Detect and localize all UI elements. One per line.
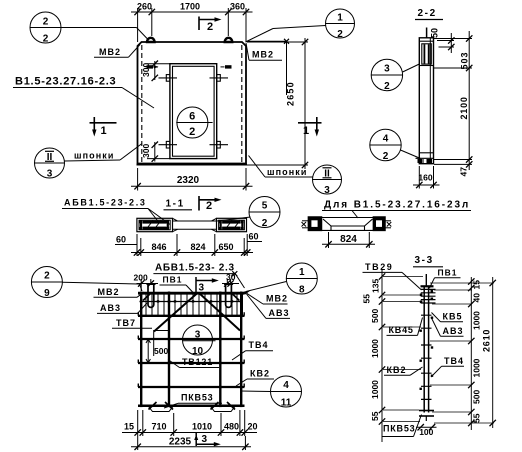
svg-text:ТВ121: ТВ121 bbox=[182, 357, 213, 367]
mid bar 1 bbox=[138, 338, 245, 340]
svg-text:503: 503 bbox=[460, 51, 470, 69]
key (shponka) top-left bbox=[159, 75, 178, 82]
top hook comb bbox=[420, 289, 436, 303]
dashed edge line right bbox=[241, 45, 243, 163]
top anchor detail bbox=[419, 41, 433, 65]
diagonal bar right bbox=[199, 293, 240, 331]
section mark 2 bottom bbox=[199, 196, 222, 212]
svg-text:ПВ1: ПВ1 bbox=[438, 268, 458, 278]
door opening bbox=[170, 64, 217, 159]
diagonal bar left bbox=[154, 293, 198, 332]
label TV4 (sec33) bbox=[431, 356, 464, 377]
callout 6/2 bbox=[176, 107, 212, 138]
svg-text:ТВ7: ТВ7 bbox=[116, 318, 136, 328]
corner diagonal top-right bbox=[231, 293, 239, 301]
svg-text:3: 3 bbox=[202, 434, 208, 445]
svg-text:300: 300 bbox=[141, 63, 151, 77]
svg-text:ПВ1: ПВ1 bbox=[163, 274, 183, 284]
top chord bbox=[138, 292, 245, 295]
panel outline bbox=[137, 42, 248, 165]
svg-text:1000: 1000 bbox=[472, 358, 482, 377]
right bar section bbox=[217, 218, 247, 231]
lifting loop left bbox=[147, 38, 155, 42]
svg-text:20: 20 bbox=[247, 422, 257, 432]
svg-text:135: 135 bbox=[371, 279, 381, 293]
svg-text:2: 2 bbox=[43, 17, 49, 28]
key bottom-right bbox=[210, 141, 229, 148]
svg-text:АБВ1.5-23-2.3: АБВ1.5-23-2.3 bbox=[64, 198, 147, 208]
dim 503 / 2100 / 47 right chain bbox=[434, 31, 472, 177]
dim 300 upper bbox=[141, 61, 170, 82]
top dimension line 260/1700/360 bbox=[131, 2, 253, 43]
svg-text:200: 200 bbox=[134, 273, 148, 283]
svg-text:шпонки: шпонки bbox=[74, 151, 115, 161]
svg-text:МВ2: МВ2 bbox=[266, 293, 288, 303]
dim 100 (sec33 bottom) bbox=[416, 424, 437, 437]
svg-text:1: 1 bbox=[299, 267, 305, 278]
label 3-3 bbox=[413, 255, 443, 267]
vertical edge bar left bbox=[140, 292, 142, 408]
section 2-2 body bbox=[419, 38, 433, 164]
extension lines across bbox=[383, 277, 494, 424]
svg-text:8: 8 bbox=[299, 285, 305, 296]
label TV121 bbox=[168, 357, 219, 368]
vertical jamb bar left bbox=[168, 292, 170, 408]
label 1-1 bbox=[164, 199, 193, 210]
svg-text:846: 846 bbox=[151, 242, 166, 252]
label MV2 cage-left bbox=[94, 287, 145, 298]
stirrup ticks bbox=[420, 315, 434, 399]
vertical edge bar right bbox=[240, 292, 242, 408]
right block bbox=[373, 217, 391, 231]
svg-text:3: 3 bbox=[324, 185, 330, 196]
label TV29 bbox=[363, 262, 422, 290]
label ABV1.5-23-2.3 upper bbox=[62, 198, 170, 225]
vertical jamb bar right bbox=[219, 292, 221, 408]
svg-text:260: 260 bbox=[137, 2, 152, 12]
mid bar 2 bbox=[138, 362, 245, 364]
svg-text:40: 40 bbox=[472, 293, 482, 303]
label MV2 top-right bbox=[246, 39, 289, 95]
svg-text:МВ2: МВ2 bbox=[98, 287, 120, 297]
corner diagonal top-left bbox=[143, 293, 152, 301]
svg-text:4: 4 bbox=[283, 380, 289, 391]
lifting loop right bbox=[225, 38, 233, 42]
label KV2 (sec33) bbox=[384, 365, 423, 376]
svg-text:1010: 1010 bbox=[192, 422, 212, 432]
label 2-2 bbox=[415, 8, 443, 20]
svg-text:КВ45: КВ45 bbox=[389, 325, 414, 335]
svg-text:ПКВ53: ПКВ53 bbox=[383, 424, 415, 434]
svg-text:АВ3: АВ3 bbox=[443, 326, 464, 336]
svg-text:МВ2: МВ2 bbox=[252, 50, 274, 60]
svg-text:160: 160 bbox=[418, 173, 432, 183]
arrowhead to cage corner bbox=[244, 290, 252, 295]
svg-text:2: 2 bbox=[44, 271, 50, 282]
svg-text:2235: 2235 bbox=[169, 437, 192, 448]
svg-text:3: 3 bbox=[384, 64, 390, 75]
svg-text:300: 300 bbox=[141, 144, 151, 158]
svg-text:55: 55 bbox=[472, 413, 482, 423]
callout II/3 shponki left bbox=[35, 144, 143, 180]
label KV45 bbox=[387, 318, 423, 336]
bottom hooks right bbox=[211, 402, 236, 410]
bottom plate bbox=[419, 411, 434, 422]
svg-text:710: 710 bbox=[151, 422, 166, 432]
svg-text:2610: 2610 bbox=[482, 329, 492, 352]
svg-text:2: 2 bbox=[262, 218, 268, 229]
svg-text:1000: 1000 bbox=[472, 311, 482, 330]
callout 4/11 bbox=[241, 376, 302, 409]
svg-text:10: 10 bbox=[192, 346, 204, 357]
section mark 1 right bbox=[298, 117, 322, 137]
chord line 2 bbox=[140, 301, 244, 303]
top plate bbox=[421, 285, 434, 287]
svg-text:9: 9 bbox=[44, 288, 50, 299]
bar column bbox=[424, 286, 428, 413]
svg-text:6: 6 bbox=[189, 111, 195, 123]
svg-text:60: 60 bbox=[116, 235, 126, 245]
callout 1/8 bbox=[246, 263, 317, 296]
dim 2650 right bbox=[247, 38, 308, 169]
svg-text:50: 50 bbox=[430, 28, 440, 38]
top stirrups bbox=[146, 293, 243, 317]
label AV3 cage-right bbox=[247, 294, 291, 318]
svg-text:15: 15 bbox=[124, 422, 134, 432]
svg-text:500: 500 bbox=[472, 390, 482, 404]
middle sill strip bbox=[173, 218, 217, 231]
dim 50 bbox=[430, 28, 455, 53]
callout 2/2 bbox=[30, 12, 149, 45]
label V1.5-23.27.16-2.3 bbox=[13, 76, 154, 109]
svg-text:55: 55 bbox=[370, 411, 380, 421]
left dim chain bbox=[362, 270, 386, 442]
lifting loop left (cage) bbox=[147, 285, 156, 308]
callout 3/2 bbox=[371, 59, 419, 92]
mid bar 3 bbox=[138, 386, 245, 388]
bottom chord bbox=[138, 405, 245, 408]
dim 200 top bbox=[134, 273, 159, 292]
label AV3 cage-left bbox=[97, 303, 147, 314]
dim 824 bbox=[322, 232, 375, 248]
svg-text:ТВ4: ТВ4 bbox=[444, 356, 464, 366]
intersection dots bbox=[140, 300, 243, 407]
svg-text:2: 2 bbox=[43, 34, 49, 45]
loop anchor mark right bbox=[221, 65, 232, 68]
label PKV53 (sec33) bbox=[382, 415, 422, 437]
stirrup dots on top chord bbox=[151, 292, 238, 294]
label KV2 cage-right bbox=[236, 368, 274, 386]
svg-text:1000: 1000 bbox=[370, 339, 380, 358]
svg-text:ТВ4: ТВ4 bbox=[249, 340, 269, 350]
bottom dims 15/710/1010/480/20 bbox=[122, 410, 258, 450]
svg-text:2: 2 bbox=[206, 200, 212, 212]
svg-text:В1.5-23.27.16-2.3: В1.5-23.27.16-2.3 bbox=[15, 76, 116, 88]
svg-text:АВ3: АВ3 bbox=[269, 308, 290, 318]
inner vertical detail left column bbox=[154, 330, 169, 356]
svg-text:824: 824 bbox=[190, 242, 205, 252]
dim 2320 bottom bbox=[131, 168, 253, 191]
svg-text:360: 360 bbox=[230, 2, 245, 12]
label KV5 bbox=[432, 311, 464, 322]
svg-text:МВ2: МВ2 bbox=[99, 47, 121, 57]
svg-text:КВ2: КВ2 bbox=[387, 365, 407, 375]
svg-text:500: 500 bbox=[370, 309, 380, 323]
key bottom-left bbox=[159, 141, 178, 148]
dashed edge line left bbox=[141, 45, 143, 163]
label Dlya V1.5-23.27.16-23l bbox=[322, 200, 471, 219]
top stud bbox=[425, 274, 427, 286]
callout 2/9 bbox=[31, 267, 142, 300]
right dim chain inner bbox=[468, 277, 481, 430]
svg-text:2100: 2100 bbox=[459, 96, 469, 119]
svg-text:3-3: 3-3 bbox=[415, 255, 434, 266]
svg-text:2: 2 bbox=[189, 126, 195, 138]
label TV4 cage-right bbox=[232, 340, 273, 360]
svg-text:55: 55 bbox=[362, 294, 372, 304]
label AV3 (sec33) bbox=[431, 317, 464, 336]
svg-text:АВ3: АВ3 bbox=[100, 303, 121, 313]
label PV1 (sec33) bbox=[430, 268, 461, 288]
callout 1/2 bbox=[246, 9, 355, 42]
callout 3/10 bbox=[183, 325, 216, 357]
loop anchor mark left bbox=[147, 65, 159, 68]
svg-text:Для В1.5-23.27.16-23л: Для В1.5-23.27.16-23л bbox=[324, 200, 470, 211]
svg-text:60: 60 bbox=[248, 232, 258, 242]
svg-text:2320: 2320 bbox=[177, 175, 200, 186]
svg-text:15: 15 bbox=[472, 280, 482, 290]
dim line 60/846/824/650/60 bbox=[115, 232, 262, 257]
svg-text:4: 4 bbox=[383, 134, 389, 145]
label TV7 cage-left bbox=[112, 318, 152, 329]
section mark 2 top bbox=[199, 17, 222, 34]
svg-text:650: 650 bbox=[218, 242, 233, 252]
bottom anchor detail bbox=[416, 153, 434, 164]
svg-text:2-2: 2-2 bbox=[418, 8, 437, 19]
svg-text:1-1: 1-1 bbox=[166, 199, 185, 210]
svg-text:824: 824 bbox=[340, 234, 357, 245]
section mark 3 bottom bbox=[194, 433, 221, 446]
sill trapezoid left bbox=[148, 406, 174, 412]
svg-text:2: 2 bbox=[384, 81, 390, 92]
key top-right bbox=[210, 75, 229, 82]
svg-text:500: 500 bbox=[154, 346, 168, 356]
svg-text:480: 480 bbox=[224, 422, 239, 432]
svg-text:2: 2 bbox=[383, 151, 389, 162]
dim 300 lower bbox=[141, 142, 170, 162]
label ABV1.5-23-2.3 lower bbox=[153, 263, 244, 289]
svg-text:ПКВ53: ПКВ53 bbox=[181, 393, 213, 403]
label PKV53 bbox=[164, 393, 222, 409]
dim 2235 bbox=[131, 436, 251, 450]
svg-text:1: 1 bbox=[101, 125, 107, 137]
svg-text:ТВ29: ТВ29 bbox=[365, 262, 393, 272]
svg-text:шпонки: шпонки bbox=[267, 167, 308, 177]
bottom hooks left bbox=[149, 402, 174, 410]
lintel bottom bar bbox=[138, 315, 245, 317]
svg-text:11: 11 bbox=[281, 398, 292, 409]
callout 5/2 bbox=[217, 197, 280, 230]
svg-text:АБВ1.5-23- 2.3: АБВ1.5-23- 2.3 bbox=[155, 263, 235, 274]
svg-text:КВ5: КВ5 bbox=[443, 311, 463, 321]
svg-text:1700: 1700 bbox=[180, 2, 200, 12]
label MV2 top-left bbox=[94, 45, 140, 58]
svg-text:2: 2 bbox=[337, 29, 343, 40]
svg-text:47: 47 bbox=[459, 167, 469, 177]
section mark 1 left bbox=[90, 117, 117, 137]
callout 4/2 bbox=[370, 129, 421, 162]
left bar section bbox=[137, 218, 173, 231]
svg-text:1: 1 bbox=[303, 125, 309, 137]
middle sill profile bbox=[322, 218, 374, 231]
dim 500 vertical bbox=[146, 339, 168, 363]
dim 30 top right bbox=[222, 272, 239, 287]
label PV1 (cage top) bbox=[160, 274, 194, 293]
label MV2 cage-right bbox=[246, 293, 289, 305]
right dim chain outer 2610 bbox=[482, 277, 496, 428]
dim 160 bottom bbox=[413, 166, 440, 189]
bar end hooks bbox=[138, 312, 244, 387]
svg-text:3: 3 bbox=[47, 169, 53, 180]
callout II/3 shponki right bbox=[249, 156, 342, 197]
svg-text:2: 2 bbox=[207, 21, 213, 33]
top pin bbox=[426, 28, 428, 38]
sill trapezoid right bbox=[210, 406, 236, 412]
svg-text:1: 1 bbox=[337, 13, 343, 24]
svg-text:3: 3 bbox=[195, 330, 201, 341]
svg-text:КВ2: КВ2 bbox=[250, 368, 270, 378]
svg-text:1000: 1000 bbox=[370, 380, 380, 399]
svg-text:30: 30 bbox=[226, 272, 236, 282]
svg-text:3: 3 bbox=[199, 283, 205, 294]
svg-text:5: 5 bbox=[262, 201, 268, 212]
left block bbox=[302, 217, 322, 231]
dots on second chord line bbox=[157, 300, 233, 302]
svg-text:100: 100 bbox=[419, 427, 433, 437]
section mark 3 top bbox=[196, 277, 219, 294]
lifting loop right (cage) bbox=[224, 285, 233, 308]
